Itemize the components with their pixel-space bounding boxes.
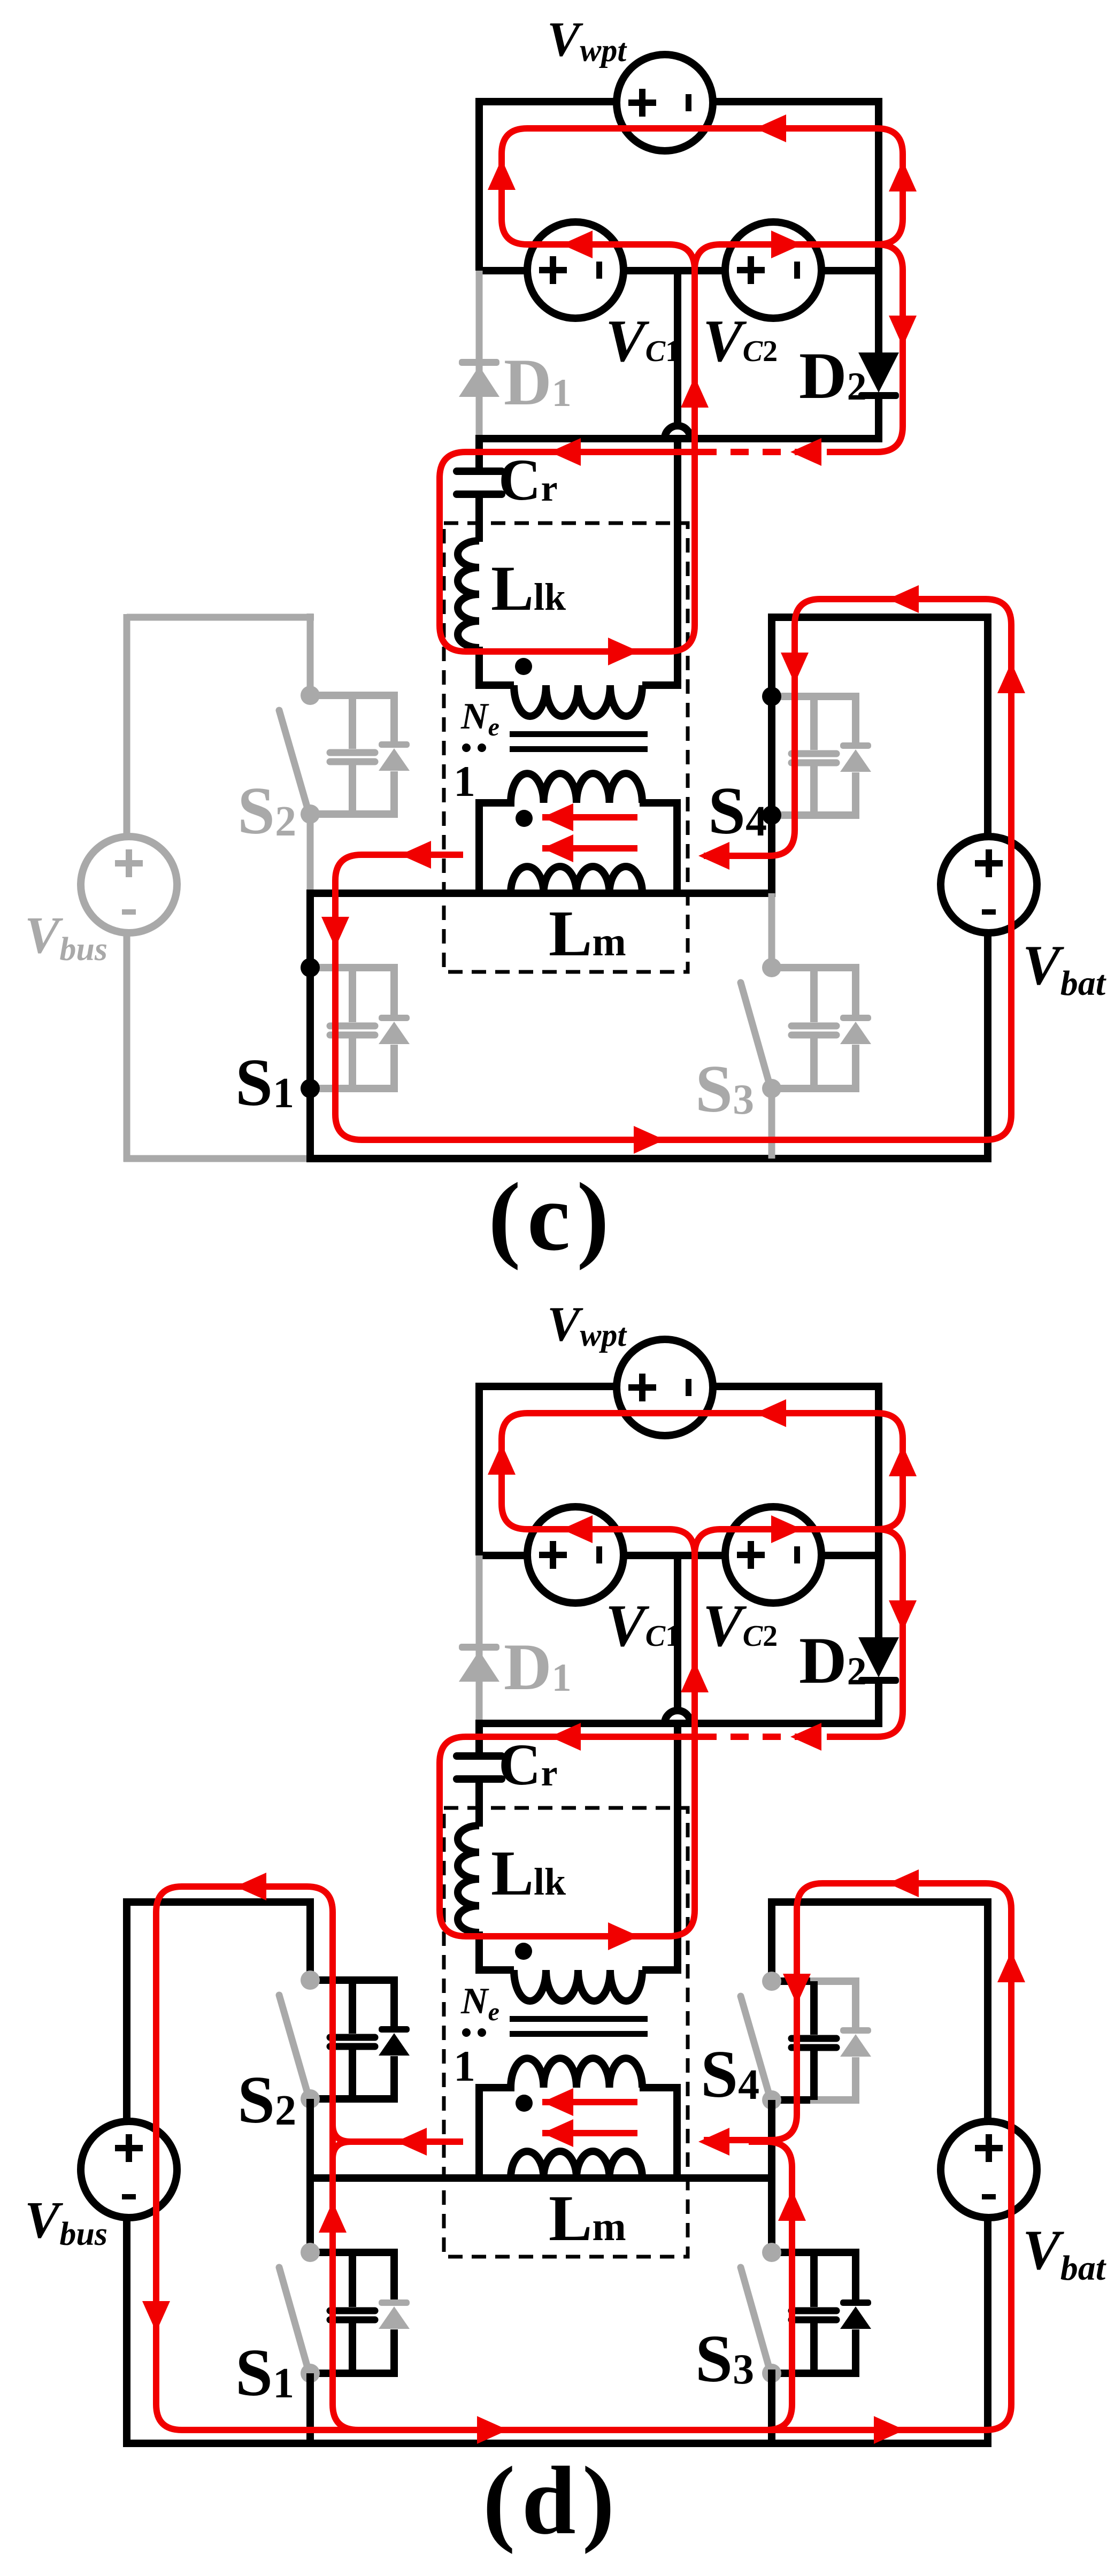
red arrow up along Vbat leg (c) <box>997 662 1025 693</box>
secondary winding polarity dot (d) <box>516 2095 533 2112</box>
svg-text:S3: S3 <box>695 2322 754 2396</box>
wire: Vbus left leg upper (gray) (c) <box>124 614 130 838</box>
switch S2 (c) bracket top stub <box>310 692 356 699</box>
voltage source Vbus (d) <box>81 2121 177 2218</box>
svg-text:D1: D1 <box>504 1630 572 1704</box>
wire: WPT coupling loop top (d) <box>475 1383 882 1390</box>
red arrow down through S4 (c) <box>781 653 809 684</box>
red path through S2 and S1 capacitor branch (d) <box>333 1912 358 2430</box>
red main loop: Vbat through S4, transformer, S1 (c) <box>335 599 1011 1140</box>
voltage source Vwpt (c) <box>617 55 713 151</box>
switch S2 (d) snubber capacitor plates <box>330 2034 375 2041</box>
red arrow left into left bridge (d) <box>396 2128 427 2156</box>
switch S4 (d) body diode <box>840 2027 871 2034</box>
red current branch through VC2 to D2 (d) <box>719 1529 903 1737</box>
switch S2 (c) bracket outer frame <box>349 695 394 814</box>
switch S3 (c) bracket bottom stub <box>772 1085 818 1092</box>
red arrow down toward D2 (c) <box>889 316 917 347</box>
switch S3 (c) snubber capacitor branch wire <box>810 968 818 1088</box>
wire: D2 cathode to bottom of loop (d) <box>875 1681 882 1727</box>
svg-text:Cr: Cr <box>498 1732 558 1797</box>
red arrow into secondary winding lower (d) <box>542 2119 573 2147</box>
red loop: Vbus side outer path (d) <box>156 1883 1011 2430</box>
wire: center leg from VC row to primary winding (d) <box>642 1555 678 1970</box>
secondary winding left lead (c) <box>479 803 514 893</box>
red arrow up through S3 capacitor (d) <box>778 2190 806 2221</box>
switch S1 (c) body diode <box>379 1015 410 1021</box>
dashed boundary box of transformer model (c) <box>444 523 688 972</box>
switch S3 blade (open, gray) (c) <box>741 983 770 1086</box>
wire: Vbus top horizontal (d) <box>127 1898 314 1906</box>
red arrow up left side of Vwpt loop (c) <box>488 159 516 190</box>
diode D2 (d) <box>858 1637 899 1677</box>
red arrow right on bottom rail left half (d) <box>477 2416 508 2444</box>
node: S3 source (gray dot) (d) <box>762 2364 781 2383</box>
red arrow left entering Cr loop (d) <box>550 1723 581 1751</box>
dashed boundary box of transformer model (d) <box>444 1808 688 2257</box>
svg-text:S1: S1 <box>235 2336 294 2410</box>
voltage source Vbus (gray) (c) <box>81 837 177 933</box>
wire: center leg from VC row to primary winding (c) <box>642 271 678 685</box>
secondary winding right lead (d) <box>640 2088 677 2178</box>
secondary winding right lead (c) <box>640 803 677 893</box>
red arrow left through VC1 (d) <box>562 1515 593 1543</box>
wire: Vbus top horizontal (gray) (c) <box>127 614 314 621</box>
svg-text:1: 1 <box>453 2042 475 2090</box>
red arrow up Vbat right side (d) <box>997 1951 1025 1982</box>
red current loop through Vwpt and VC1 (d) <box>502 1413 903 1529</box>
voltage source VC2 (c) <box>725 222 821 318</box>
switch S3 (d) bracket outer frame <box>810 2252 856 2373</box>
switch S2 (d) bracket outer frame <box>349 1980 394 2099</box>
switch S2 (d) bracket top stub <box>310 1976 356 1984</box>
switch S4 blade (open, gray) (d) <box>741 1996 770 2098</box>
primary winding polarity dot (d) <box>515 1943 532 1960</box>
svg-text:D1: D1 <box>504 346 572 419</box>
transformer core bars (d) <box>510 2016 648 2022</box>
wire: S1 source to bottom rail (d) <box>306 2373 314 2447</box>
svg-text:S1: S1 <box>235 1046 294 1120</box>
red arrow down through S1 (c) <box>321 917 349 948</box>
primary winding polarity dot (c) <box>515 658 532 675</box>
red arrow down through S4 capacitor (d) <box>783 1974 811 2005</box>
wire: S2 upper leg (gray, off) (c) <box>307 614 314 695</box>
red arrow up center leg (c) <box>681 377 709 408</box>
switch S2 (c) snubber capacitor branch wire <box>349 695 356 814</box>
red arrow into secondary winding upper (c) <box>542 803 573 831</box>
switch S3 blade (open, gray) (d) <box>741 2267 770 2371</box>
node: S4 source (gray dot) (d) <box>762 2090 781 2110</box>
wire hop over center leg (d) <box>665 1711 690 1723</box>
magnetizing inductor Lm (d) <box>511 2151 642 2178</box>
red arrow right through VC2 (c) <box>771 231 802 258</box>
red path around Cr and Llk (c) <box>440 270 706 651</box>
magnetizing inductor Lm (c) <box>511 867 642 893</box>
svg-text:Lm: Lm <box>549 898 626 970</box>
wire: midpoint to S3 drain (black) (d) <box>768 2174 775 2252</box>
switch S2 (c) body diode <box>379 741 410 748</box>
wire: transformer bus to bridge midpoints (d) <box>306 2174 775 2182</box>
wire: right bridge top rail (d) <box>772 1898 991 1906</box>
svg-text:VC1: VC1 <box>605 1593 680 1659</box>
red arrow left entering transformer from right (d) <box>698 2128 729 2156</box>
diode D1 (gray) (d) <box>459 1644 499 1651</box>
voltage source VC1 (d) <box>527 1507 624 1603</box>
switch S1 (c) snubber capacitor branch wire <box>349 968 356 1088</box>
svg-text:Vbat: Vbat <box>1023 934 1106 1003</box>
red arrow right along bottom of Cr loop (c) <box>608 638 639 665</box>
wire: Vbat right leg lower (d) <box>984 2217 991 2447</box>
wire: Vbus left leg lower (gray) (c) <box>124 932 130 1162</box>
transformer secondary winding (1 turn) (c) <box>511 773 642 803</box>
turns-ratio colon dots (d) <box>462 2028 471 2037</box>
wire: Vbus left leg upper (d) <box>123 1898 130 2122</box>
switch S1 (d) snubber capacitor branch wire <box>349 2252 356 2373</box>
svg-text:S4: S4 <box>701 2037 759 2112</box>
svg-text:Vwpt: Vwpt <box>547 1297 627 1353</box>
wire: bottom rail full width (d) <box>124 2440 991 2447</box>
diode D1 branch wire (off, gray) (d) <box>476 1555 483 1722</box>
svg-text:Cr: Cr <box>498 447 558 512</box>
switch S4 (d) bracket top stub <box>772 1977 818 1985</box>
wire: D2 cathode to bottom of loop (c) <box>875 396 882 442</box>
switch S1 (d) bracket outer frame <box>349 2252 394 2373</box>
voltage source VC2 (d) <box>725 1507 821 1603</box>
wire: S3 source to bottom rail (gray) (c) <box>768 1088 775 1159</box>
wire: S4 upper leg (black) (d) <box>768 1898 775 1981</box>
inductor Llk (d) <box>458 1826 479 1933</box>
switch S4 (c) bracket outer frame <box>810 696 856 815</box>
switch S3 (c) bracket outer frame <box>810 968 856 1088</box>
wire: S4 leg (black, S4 conducting) (c) <box>768 614 775 897</box>
red arrow left above S4 (c) <box>888 585 919 613</box>
red arrow right along bottom of Cr loop (d) <box>608 1922 639 1950</box>
switch S3 (d) snubber capacitor branch wire <box>810 2252 818 2373</box>
red dashed segment along rectifier bottom (c) <box>701 449 845 455</box>
red branch up through S3 capacitors (d) <box>749 2142 792 2430</box>
switch S1 (c) snubber capacitor plates <box>330 1023 375 1030</box>
red arrow left entering transformer from S4 (c) <box>698 842 729 870</box>
red arrow into secondary winding lower (c) <box>542 834 573 862</box>
wire: Llk to transformer primary (c) <box>475 647 483 689</box>
wire: S2 upper leg (black) (d) <box>306 1898 314 1980</box>
switch S2 blade (open, gray) (c) <box>279 710 309 812</box>
red arrow up right side of Vwpt loop (c) <box>889 160 917 191</box>
node: S1 drain (gray dot) (d) <box>301 2243 320 2262</box>
wire: left bridge leg lower (black, S1 conducting) (c) <box>306 890 314 1162</box>
switch S1 (d) snubber capacitor plates <box>330 2307 375 2314</box>
red arrow down toward D2 (d) <box>889 1600 917 1631</box>
node: S3 drain (gray) (c) <box>762 958 781 977</box>
transformer secondary winding (1 turn) (d) <box>511 2058 642 2088</box>
voltage source Vbat (c) <box>941 837 1037 933</box>
wire: Vbat right leg upper (c) <box>984 614 991 838</box>
capacitor Cr (c) <box>457 467 502 475</box>
transformer primary winding Ne turns (d) <box>514 1970 642 2001</box>
switch S4 (c) snubber capacitor branch wire <box>810 696 818 815</box>
wire: S3 source to bottom rail (d) <box>768 2370 775 2447</box>
switch S1 (c) bracket outer frame <box>349 968 394 1088</box>
red arrow into secondary winding upper (d) <box>542 2088 573 2116</box>
node: S1 source (gray dot) (d) <box>301 2364 320 2383</box>
wire: Cr to Llk (c) <box>475 494 483 542</box>
red path around Cr and Llk (d) <box>440 1555 706 1936</box>
red arrow left on Vbat top line (d) <box>888 1869 919 1897</box>
voltage source Vwpt (d) <box>617 1339 713 1436</box>
red arrow left on top Vwpt line (c) <box>755 114 786 142</box>
secondary winding left lead (d) <box>479 2088 514 2178</box>
node: S1 drain (c) <box>301 958 320 977</box>
switch S1 (c) bracket top stub <box>310 964 356 971</box>
red arrow left entering Cr loop (c) <box>550 438 581 466</box>
switch S1 (d) bracket bottom stub <box>310 2370 356 2377</box>
node: S3 drain (gray dot) (d) <box>762 2243 781 2262</box>
svg-text:Ne: Ne <box>460 1981 499 2026</box>
wire: WPT coupling loop left vertical (d) <box>475 1386 483 1555</box>
svg-text:Llk: Llk <box>491 1837 566 1908</box>
node: S4 drain (gray dot) (d) <box>762 1972 781 1991</box>
wire hop over center leg (c) <box>665 426 690 439</box>
red junction split at VC row (c) <box>669 244 720 270</box>
switch S4 (d) bracket bottom stub <box>772 2096 818 2104</box>
node: S1 source (c) <box>301 1079 320 1098</box>
wire: Cr to Llk (d) <box>475 1779 483 1827</box>
red arrow left exiting transformer (c) <box>400 841 431 869</box>
wire: bottom of rectifier loop (c) <box>479 435 879 442</box>
node: S2 drain (gray) (c) <box>301 686 320 705</box>
wire: bottom rail (black) (c) <box>306 1155 991 1162</box>
wire: bottom of rectifier loop (d) <box>479 1720 879 1727</box>
svg-text:S3: S3 <box>695 1052 754 1126</box>
wire: Llk to transformer primary (d) <box>475 1931 483 1974</box>
red current branch through VC2 to D2 (c) <box>719 244 903 452</box>
wire: Vbat right leg lower (c) <box>984 932 991 1162</box>
wire: WPT coupling loop top (c) <box>475 98 882 105</box>
secondary winding polarity dot (c) <box>516 810 533 827</box>
switch S2 (c) bracket bottom stub <box>310 810 356 818</box>
svg-text:1: 1 <box>453 757 475 806</box>
wire: right bridge top rail (c) <box>772 614 991 621</box>
red arrow left on top Vwpt line (d) <box>755 1399 786 1427</box>
wire: Vbat right leg upper (d) <box>984 1898 991 2122</box>
node: S2 drain (gray dot) (d) <box>301 1971 320 1990</box>
switch S2 (d) bracket bottom stub <box>310 2095 356 2103</box>
switch S4 (c) bracket top stub <box>772 693 818 700</box>
switch S4 (c) bracket bottom stub <box>772 811 818 819</box>
transformer primary winding Ne turns (c) <box>514 685 642 716</box>
red arrow right along bottom rail (c) <box>634 1126 665 1154</box>
red arrow right through VC2 (d) <box>771 1515 802 1543</box>
wire: S4 source to midpoint (black) (d) <box>768 2100 775 2182</box>
node: S2 source (gray) (c) <box>301 804 320 824</box>
red arrow left on dashed segment (d) <box>790 1723 821 1751</box>
red arrow down Vbus left side (d) <box>142 2301 170 2332</box>
svg-text:Ne: Ne <box>460 696 499 741</box>
wire: capacitor-source row VC1-VC2 (c) <box>479 267 879 274</box>
red line from transformer to left bridge midpoint (d) <box>333 2125 463 2159</box>
red arrow up between S1 and midpoint (d) <box>319 2202 347 2233</box>
inductor Llk (c) <box>458 541 479 648</box>
wire: transformer bus to left bridge midpoint (c) <box>306 890 775 897</box>
node: S4 drain (c) <box>762 687 781 706</box>
diode D1 branch wire (off, gray) (c) <box>476 271 483 438</box>
switch S3 (c) body diode <box>840 1015 871 1021</box>
switch S2 (d) snubber capacitor branch wire <box>349 1980 356 2099</box>
switch S3 (c) snubber capacitor plates <box>791 1023 836 1030</box>
wire: Vbus left leg lower (d) <box>123 2217 130 2447</box>
switch S1 (c) bracket bottom stub <box>310 1085 356 1092</box>
red current loop through Vwpt and VC1 (c) <box>502 128 903 244</box>
red junction split at VC row (d) <box>669 1529 720 1555</box>
svg-text:Llk: Llk <box>491 553 566 624</box>
switch S3 (d) bracket top stub <box>772 2249 818 2256</box>
red arrow left through VC1 (c) <box>562 231 593 258</box>
svg-text:(d): (d) <box>483 2447 621 2555</box>
wire: WPT coupling loop left vertical (c) <box>475 102 483 271</box>
node: S4 source (c) <box>762 806 781 825</box>
capacitor Cr (d) <box>457 1752 502 1760</box>
switch S1 (d) bracket top stub <box>310 2249 356 2256</box>
wire: Vbus bottom horizontal (gray) (c) <box>124 1155 310 1162</box>
switch S4 (d) snubber capacitor branch wire <box>810 1981 818 2100</box>
switch S4 (d) bracket outer frame <box>810 1981 856 2100</box>
wire: capacitor-source row VC1-VC2 (d) <box>479 1552 879 1559</box>
turns-ratio colon dots (c) <box>462 743 471 752</box>
diode D1 (gray) (c) <box>459 359 499 366</box>
voltage source Vbat (d) <box>941 2121 1037 2218</box>
switch S2 (d) body diode <box>379 2026 410 2033</box>
switch S3 (d) bracket bottom stub <box>772 2370 818 2377</box>
switch S1 (d) body diode <box>379 2299 410 2306</box>
wire: S3 upper leg (gray, off) (c) <box>768 893 775 968</box>
svg-text:(c): (c) <box>488 1163 616 1271</box>
node: S2 source (gray dot) (d) <box>301 2089 320 2109</box>
wire: S2 source to midpoint (black) (d) <box>306 2099 314 2182</box>
diode D2 (c) <box>858 352 899 393</box>
capacitor Cr lead (c) <box>475 435 483 471</box>
svg-text:D2: D2 <box>799 339 867 412</box>
switch S1 blade (open, gray) (d) <box>279 2267 309 2371</box>
svg-text:S2: S2 <box>237 2063 296 2137</box>
svg-text:S4: S4 <box>708 774 767 848</box>
switch S3 (c) bracket top stub <box>772 964 818 971</box>
switch S4 (c) snubber capacitor plates <box>791 750 836 757</box>
red arrow up center leg (d) <box>681 1661 709 1692</box>
svg-text:VC1: VC1 <box>605 308 680 374</box>
red dashed segment along rectifier bottom (d) <box>701 1734 845 1740</box>
switch S3 (d) body diode <box>840 2299 871 2306</box>
transformer core bars (c) <box>510 731 648 737</box>
red arrow up left side of Vwpt loop (d) <box>488 1444 516 1475</box>
node: S3 source (gray) (c) <box>762 1079 781 1098</box>
switch S3 (d) snubber capacitor plates <box>791 2307 836 2314</box>
switch S4 (c) body diode <box>840 742 871 749</box>
voltage source VC1 (c) <box>527 222 624 318</box>
switch S4 (d) snubber capacitor plates <box>791 2035 836 2042</box>
svg-text:Vwpt: Vwpt <box>547 12 627 68</box>
red arrow up right side of Vwpt loop (d) <box>889 1445 917 1476</box>
switch S2 (c) snubber capacitor plates <box>330 749 375 756</box>
red arrow right on bottom rail right half (d) <box>874 2416 905 2444</box>
capacitor Cr lead (d) <box>475 1720 483 1756</box>
svg-text:Vbat: Vbat <box>1023 2219 1106 2288</box>
wire: S2 source to midpoint (gray) (c) <box>307 814 314 893</box>
svg-text:Lm: Lm <box>549 2182 626 2255</box>
red arrow left on dashed segment (c) <box>790 438 821 466</box>
switch S2 blade (open, gray) (d) <box>279 1995 309 2097</box>
svg-text:S2: S2 <box>237 774 296 848</box>
wire: midpoint to S1 drain (black) (d) <box>306 2174 314 2252</box>
red arrow left on Vbus top line (d) <box>235 1873 266 1900</box>
svg-text:D2: D2 <box>799 1624 867 1697</box>
wire: right vertical from top loop to diode D2 (c) <box>875 98 882 352</box>
wire: right vertical from top loop to diode D2 (d) <box>875 1383 882 1637</box>
